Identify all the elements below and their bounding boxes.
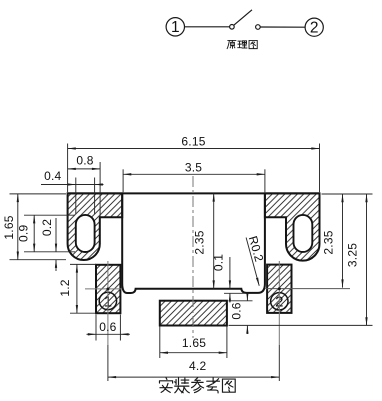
svg-text:0.2: 0.2 [40,219,54,236]
svg-text:2.35: 2.35 [322,230,336,254]
svg-text:0.1: 0.1 [211,254,225,271]
svg-text:3.25: 3.25 [346,243,360,267]
svg-text:2.35: 2.35 [193,230,207,254]
svg-text:4.2: 4.2 [189,359,206,373]
svg-text:1.65: 1.65 [182,336,206,350]
svg-text:3.5: 3.5 [185,161,202,175]
svg-text:R0.2: R0.2 [246,234,267,263]
svg-text:0.9: 0.9 [17,225,31,242]
svg-text:1: 1 [171,19,180,36]
svg-text:0.6: 0.6 [99,320,116,334]
svg-text:1.2: 1.2 [58,279,72,296]
svg-text:0.8: 0.8 [76,154,93,168]
svg-text:6.15: 6.15 [181,135,205,149]
svg-text:0.6: 0.6 [229,302,243,319]
svg-text:0.4: 0.4 [44,169,61,183]
svg-text:2: 2 [310,19,319,36]
svg-text:1.65: 1.65 [2,215,16,239]
